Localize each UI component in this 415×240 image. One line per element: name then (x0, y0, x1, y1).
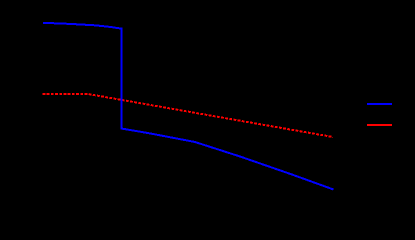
red dashed curve (43, 94, 334, 137)
legend red line sample (367, 124, 392, 126)
legend blue line sample (367, 103, 392, 105)
blue curve (43, 23, 334, 190)
